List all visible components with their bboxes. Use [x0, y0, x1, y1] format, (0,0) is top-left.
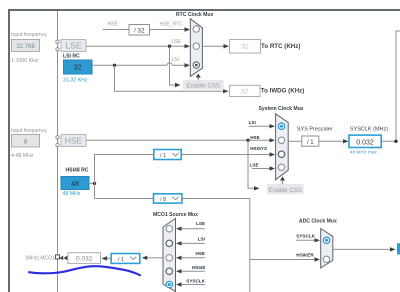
SYS Prescaler /1 box	[302, 136, 319, 146]
svg-text:31-32 KHz: 31-32 KHz	[63, 78, 88, 84]
arrow into mco divider	[142, 256, 148, 260]
wire RTC mux output	[202, 45, 223, 47]
arrow into ADC box	[390, 247, 396, 251]
oscillator LSE	[61, 40, 86, 52]
arrow into ADC mux HSIKER	[315, 257, 321, 261]
button Enable CSS (RTC)	[183, 80, 224, 90]
RTC mux radio LSE	[193, 43, 199, 49]
arrow mco HSE	[176, 256, 182, 260]
pin MCO1	[56, 255, 60, 259]
wire mco HSE stub	[182, 257, 205, 259]
svg-text:Input frequency: Input frequency	[11, 128, 47, 134]
arrow mco LSI	[176, 241, 182, 245]
sys mux radio HSE	[278, 137, 284, 143]
oscillator HSI48 RC 48	[61, 177, 89, 190]
svg-text:/ 1: / 1	[307, 140, 314, 146]
svg-text:1-1000 KHz: 1-1000 KHz	[11, 58, 39, 64]
divider HSIKER /8 dropdown	[154, 194, 182, 203]
wire adc SYSCLK stub	[296, 239, 314, 241]
svg-text:48: 48	[71, 181, 79, 188]
svg-text:To RTC (KHz): To RTC (KHz)	[261, 43, 300, 50]
wire mco SYSCLK stub	[182, 284, 205, 286]
arrow into sys mux HSISYS	[270, 152, 276, 156]
arrow into sys mux LSI	[270, 124, 276, 128]
LSE input frequency box 32.768	[12, 40, 40, 52]
wire prescaler to SYSCLK box	[319, 140, 343, 142]
svg-text:HSE: HSE	[195, 251, 204, 256]
svg-text:LSI: LSI	[198, 237, 205, 242]
svg-text:Input frequency: Input frequency	[11, 32, 47, 38]
wire HSI48 riser	[95, 155, 154, 199]
svg-text:LSE: LSE	[250, 163, 259, 168]
wire mco divider to box	[107, 257, 111, 259]
wire LSE to Enable CSS	[170, 46, 176, 85]
svg-text:0.032: 0.032	[76, 256, 93, 263]
pin OSC32_OUT	[56, 48, 59, 51]
wire LSE net	[86, 45, 185, 47]
svg-text:0.032: 0.032	[356, 139, 374, 146]
junction SYSCLK	[394, 140, 397, 143]
svg-text:32: 32	[74, 65, 82, 72]
wire mco HSI48 stub	[182, 270, 205, 272]
svg-text:RTC Clock Mux: RTC Clock Mux	[176, 12, 214, 18]
svg-text:To IWDG (KHz): To IWDG (KHz)	[261, 87, 305, 94]
arrow into RTC mux LSI	[185, 63, 191, 67]
sys mux radio LSI selected	[278, 123, 284, 129]
wire HSE to /32	[103, 29, 129, 31]
svg-text:HSIKER: HSIKER	[296, 253, 314, 258]
RTC mux radio LSI selected	[193, 62, 199, 68]
divider HSISYS /1 dropdown	[154, 150, 181, 160]
arrow into IWDG value box	[223, 89, 229, 93]
wire LSI stub	[249, 125, 270, 127]
SYSCLK value box	[349, 135, 381, 147]
svg-text:4-48 MHz: 4-48 MHz	[11, 153, 34, 159]
oscillator LSI RC 32	[64, 60, 93, 74]
svg-text:/ 1: / 1	[118, 257, 124, 263]
wire HSISYS to system mux	[181, 154, 269, 156]
wire HSE_RTC to RTC mux	[150, 29, 186, 31]
svg-text:48 MHz max: 48 MHz max	[350, 149, 378, 155]
button Enable CSS (system)	[267, 184, 304, 194]
HSE input frequency box 8	[12, 135, 40, 148]
wire hop over CSS drop	[167, 63, 172, 66]
wire LSE stub	[252, 168, 270, 170]
adc mux radio HSIKER	[323, 256, 329, 262]
wire HSIKER branch to ADC mux	[250, 259, 315, 261]
arrow into RTC Enable CSS	[175, 83, 181, 87]
svg-text:SYSCLK (MHz): SYSCLK (MHz)	[350, 127, 388, 133]
arrow into sys mux LSE	[270, 166, 276, 170]
junction HSE/CSS	[246, 139, 249, 142]
svg-text:32: 32	[241, 44, 249, 51]
arrow into RTC value box	[224, 44, 230, 48]
divider /32 box	[129, 25, 150, 36]
svg-text:HSI48 RC: HSI48 RC	[66, 168, 89, 174]
arrow mco HSI48	[176, 269, 182, 273]
wire sys mux output	[288, 140, 301, 142]
pin OSC32_IN	[56, 40, 59, 43]
svg-text:SYSCLK: SYSCLK	[186, 278, 205, 283]
svg-text:32: 32	[241, 88, 249, 95]
mco mux radio LSI	[166, 240, 172, 246]
arrow into sys mux HSE	[270, 138, 276, 142]
ADC clipped blue box	[397, 243, 400, 254]
svg-text:HSE: HSE	[108, 22, 119, 28]
RTC mux radio HSE_RTC	[193, 26, 199, 32]
mco mux radio HSE	[166, 255, 172, 261]
pin OSC_OUT	[56, 143, 59, 146]
svg-text:/ 32: / 32	[134, 27, 145, 34]
value box To IWDG	[230, 85, 261, 96]
arrow mco SYSCLK	[176, 282, 182, 286]
MCO1 Source Mux body	[163, 218, 176, 291]
RTC Clock Mux body	[190, 19, 202, 77]
wire HSIKER run	[182, 199, 250, 292]
arrow into system Enable CSS	[254, 186, 260, 190]
junction LSI/IWDG	[113, 64, 116, 67]
arrow into RTC mux HSE_RTC	[185, 27, 191, 31]
mco mux radio SYSCLK selected	[166, 281, 172, 287]
svg-text:HSE: HSE	[65, 136, 83, 146]
wire LSI to IWDG	[115, 65, 223, 91]
mco double arrow	[59, 256, 67, 260]
wire adc mux output	[333, 248, 390, 250]
left pin rail	[57, 11, 59, 292]
arrow into ADC mux SYSCLK	[315, 238, 321, 242]
wire HSI48 to /8	[95, 198, 154, 200]
svg-text:LSI: LSI	[172, 57, 180, 63]
oscillator HSE	[61, 135, 86, 147]
svg-text:SYSCLK: SYSCLK	[296, 234, 315, 239]
wire LSI net right part	[172, 64, 185, 66]
wire SYSCLK out	[381, 31, 400, 141]
junction LSE/CSS	[168, 45, 171, 48]
mco mux radio HSI48	[166, 268, 172, 274]
pin OSC_IN	[56, 136, 59, 139]
wire mco LSE stub	[182, 228, 205, 230]
MCO value box 0.032	[68, 253, 101, 264]
svg-text:Enable CSS: Enable CSS	[268, 187, 302, 194]
wire HSI48 to junction	[89, 182, 95, 184]
svg-text:LSI RC: LSI RC	[63, 54, 80, 60]
arrow mco LSE	[176, 227, 182, 231]
svg-text:48 MHz: 48 MHz	[63, 191, 81, 197]
svg-text:32.768: 32.768	[16, 44, 35, 50]
svg-text:/ 1: / 1	[160, 153, 166, 159]
svg-text:Enable CSS: Enable CSS	[186, 82, 220, 89]
arrow into RTC mux LSE	[185, 44, 191, 48]
ADC Clock Mux body	[321, 229, 333, 269]
ink annotation scribble	[29, 266, 140, 275]
divider MCO /1 dropdown	[111, 254, 140, 264]
svg-text:LSE: LSE	[65, 41, 81, 51]
sys mux enable arrow	[280, 176, 285, 184]
svg-text:HSE: HSE	[250, 135, 259, 140]
sys mux radio HSISYS	[278, 151, 284, 157]
wire mco mux output	[148, 257, 164, 259]
wire HSE net	[86, 139, 270, 141]
svg-text:MCO1 Source Mux: MCO1 Source Mux	[153, 212, 198, 218]
wire LSI net	[92, 64, 167, 66]
mco mux radio LSE	[166, 226, 172, 232]
svg-text:HSI48: HSI48	[192, 265, 205, 270]
arrow into mco value box	[102, 256, 108, 260]
svg-text:(MHz) MCO1: (MHz) MCO1	[25, 256, 55, 262]
arrow into SYSCLK box	[343, 139, 349, 143]
RTC mux enable arrow	[196, 74, 201, 80]
svg-text:LSE: LSE	[196, 221, 205, 226]
svg-text:/ 8: / 8	[160, 197, 166, 203]
svg-text:HSE_RTC: HSE_RTC	[160, 22, 184, 28]
System Clock Mux body	[276, 114, 289, 180]
svg-text:HSISYS: HSISYS	[250, 146, 267, 151]
junction HSI48	[93, 182, 96, 185]
adc mux radio SYSCLK selected	[323, 237, 329, 243]
svg-text:LSE: LSE	[172, 39, 182, 45]
wire HSE to system Enable CSS	[248, 140, 254, 188]
svg-text:LSI: LSI	[249, 120, 256, 125]
svg-text:ADC Clock Mux: ADC Clock Mux	[299, 219, 337, 225]
value box To RTC	[230, 40, 261, 54]
svg-text:System Clock Mux: System Clock Mux	[259, 106, 304, 112]
sys mux radio LSE	[278, 164, 284, 170]
svg-text:SYS Prescaler: SYS Prescaler	[297, 127, 333, 133]
wire mco LSI stub	[182, 242, 205, 244]
